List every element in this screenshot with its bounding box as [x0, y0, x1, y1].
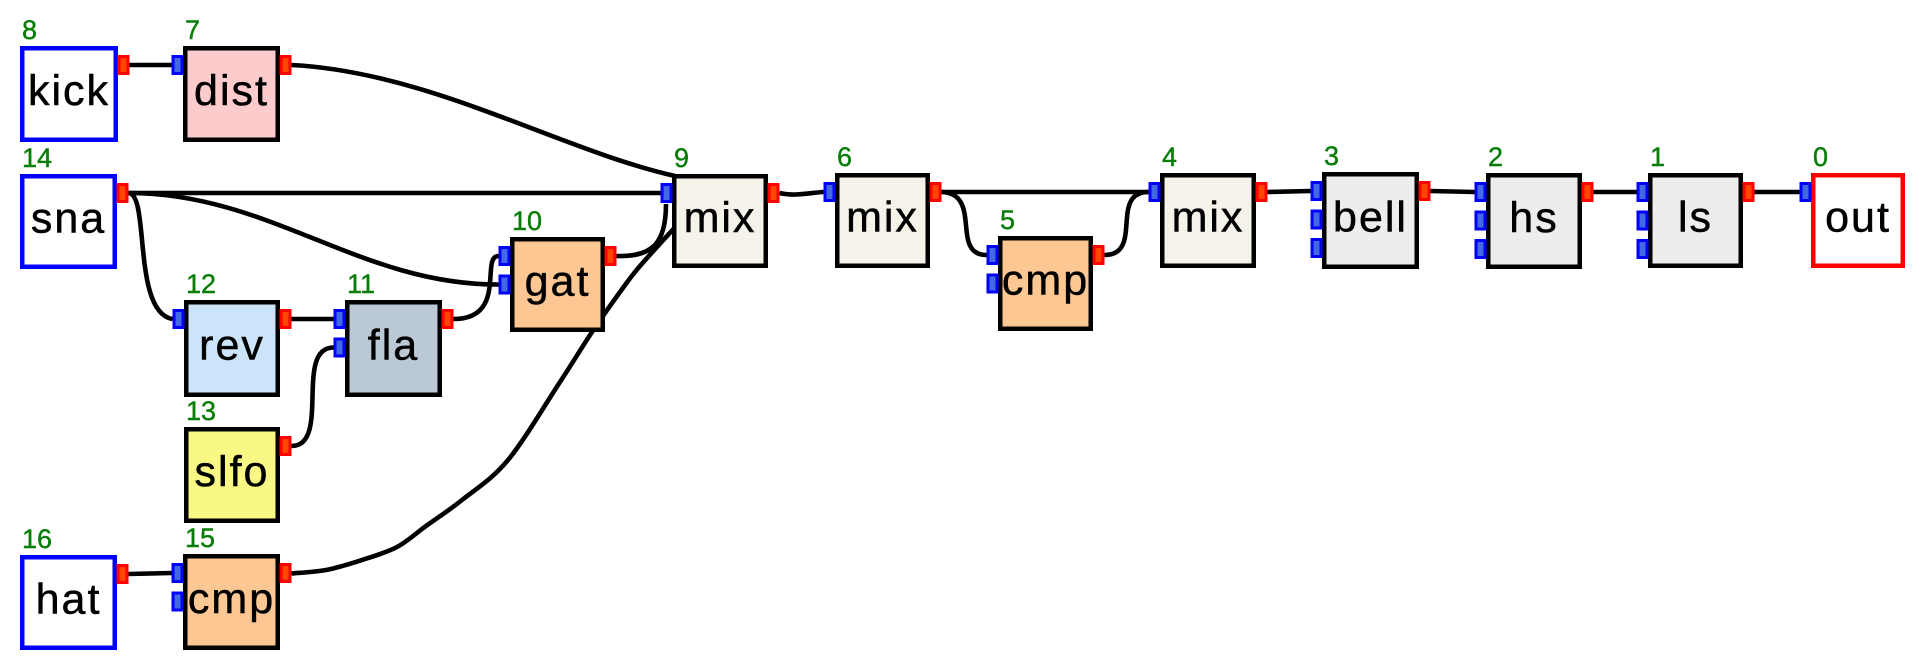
wire sna.out -> rev.in [129, 193, 173, 319]
node out (block 0) [1800, 142, 1903, 266]
input port 1 of mix4 [1149, 182, 1161, 202]
output port of mix6 [930, 182, 942, 202]
output port of gat [605, 246, 617, 266]
wire hs.out -> ls.in1 [1594, 190, 1637, 195]
input port 3 of ls [1637, 239, 1649, 259]
output port of hat [117, 564, 129, 584]
svg-text:out: out [1825, 194, 1891, 242]
wire gat.out -> mix9.in (arrives from below) [617, 204, 667, 256]
node bell (block 3) [1311, 141, 1431, 267]
wire sna.out -> gat.in2 (gentle descent) [129, 193, 499, 285]
svg-text:9: 9 [674, 143, 689, 173]
svg-text:mix: mix [1172, 194, 1245, 242]
wire mix9.out -> mix6.in [780, 192, 824, 195]
node cmp15 (block 15) [172, 523, 292, 648]
svg-text:kick: kick [28, 67, 110, 115]
wire mix6.out -> mix4.in [942, 190, 1149, 195]
input port 2 of hs [1475, 211, 1487, 231]
wire bell.out -> hs.in1 [1431, 191, 1475, 192]
output port of cmp5 [1093, 245, 1105, 265]
svg-text:12: 12 [186, 269, 216, 299]
svg-text:2: 2 [1488, 142, 1503, 172]
input port 2 of cmp15 [172, 592, 184, 612]
svg-text:fla: fla [368, 322, 419, 370]
output port of mix4 [1256, 182, 1268, 202]
node hat (block 16) [22, 524, 129, 648]
svg-text:ls: ls [1678, 194, 1713, 242]
wire cmp15.out -> mix9.in (long curve under mix9 box) [292, 224, 679, 574]
svg-text:5: 5 [1000, 205, 1015, 235]
input port 1 of bell [1311, 181, 1323, 201]
node mix9 (block 9) [661, 143, 780, 266]
node mix4 (block 4) [1149, 142, 1268, 266]
node fla (block 11) [334, 269, 454, 395]
svg-text:4: 4 [1162, 142, 1177, 172]
svg-text:bell: bell [1333, 194, 1408, 242]
input port 2 of fla [334, 338, 346, 358]
node cmp5 (block 5) [987, 205, 1105, 329]
input port 2 of gat [499, 275, 511, 295]
output port of bell [1419, 181, 1431, 201]
input port 1 of gat [499, 246, 511, 266]
svg-text:10: 10 [512, 206, 542, 236]
output port of slfo [280, 436, 292, 456]
node dist (block 7) [172, 15, 292, 140]
input port 1 of rev [173, 309, 185, 329]
node slfo (block 13) [186, 396, 292, 521]
input port 1 of cmp5 [987, 245, 999, 265]
svg-text:3: 3 [1324, 141, 1339, 171]
output port of rev [280, 309, 292, 329]
svg-text:13: 13 [186, 396, 216, 426]
svg-text:cmp: cmp [188, 575, 275, 623]
svg-text:7: 7 [185, 15, 200, 45]
output port of hs [1582, 182, 1594, 202]
input port 1 of out [1800, 182, 1812, 202]
output port of dist [280, 55, 292, 75]
svg-text:hat: hat [36, 576, 102, 624]
svg-text:dist: dist [194, 67, 269, 115]
input port 1 of mix9 [661, 183, 673, 203]
svg-text:mix: mix [846, 194, 919, 242]
wire hat.out -> cmp15.in1 [129, 573, 172, 574]
node hs (block 2) [1475, 142, 1594, 267]
wire cmp5.out -> mix4.in [1105, 192, 1149, 255]
svg-text:6: 6 [837, 142, 852, 172]
input port 2 of bell [1311, 210, 1323, 230]
node kick (block 8) [22, 15, 130, 140]
input port 2 of ls [1637, 211, 1649, 231]
output port of sna [117, 183, 129, 203]
output port of fla [442, 309, 454, 329]
wire mix4.out -> bell.in1 [1268, 191, 1311, 192]
svg-text:sna: sna [31, 195, 106, 243]
input port 1 of dist [172, 55, 184, 75]
svg-text:16: 16 [22, 524, 52, 554]
node rev (block 12) [173, 269, 292, 395]
input port 3 of bell [1311, 238, 1323, 258]
svg-text:cmp: cmp [1002, 257, 1089, 305]
svg-text:gat: gat [525, 258, 591, 306]
input port 3 of hs [1475, 239, 1487, 259]
input port 1 of ls [1637, 182, 1649, 202]
input port 2 of cmp5 [987, 274, 999, 294]
wire sna.out -> mix9.in (horizontal) [129, 191, 661, 196]
node sna (block 14) [22, 143, 129, 267]
node mix6 (block 6) [824, 142, 942, 266]
svg-text:rev: rev [199, 322, 265, 370]
svg-text:1: 1 [1650, 142, 1665, 172]
wire slfo.out -> fla.in2 [292, 348, 334, 447]
wire dist.out -> mix9.in (long curve) [292, 65, 676, 176]
node ls (block 1) [1637, 142, 1755, 266]
svg-text:15: 15 [185, 523, 215, 553]
input port 1 of hs [1475, 182, 1487, 202]
output port of mix9 [768, 183, 780, 203]
wire rev.out -> fla.in1 [292, 317, 334, 322]
svg-text:14: 14 [22, 143, 52, 173]
output port of kick [118, 55, 130, 75]
wire mix6.out -> cmp5.in1 [942, 192, 987, 255]
output port of ls [1743, 182, 1755, 202]
input port 1 of mix6 [824, 182, 836, 202]
svg-text:11: 11 [347, 269, 375, 299]
wire ls.out -> out.in [1755, 190, 1800, 195]
node gat (block 10) [499, 206, 617, 330]
input port 1 of cmp15 [172, 563, 184, 583]
svg-text:8: 8 [22, 15, 37, 45]
svg-text:0: 0 [1813, 142, 1828, 172]
wire fla.out -> gat.in1 [454, 256, 499, 319]
wire kick.out -> dist.in1 [130, 63, 172, 68]
svg-text:hs: hs [1509, 194, 1558, 242]
svg-text:mix: mix [684, 194, 757, 242]
input port 1 of fla [334, 309, 346, 329]
output port of cmp15 [280, 563, 292, 583]
svg-text:slfo: slfo [195, 448, 270, 496]
